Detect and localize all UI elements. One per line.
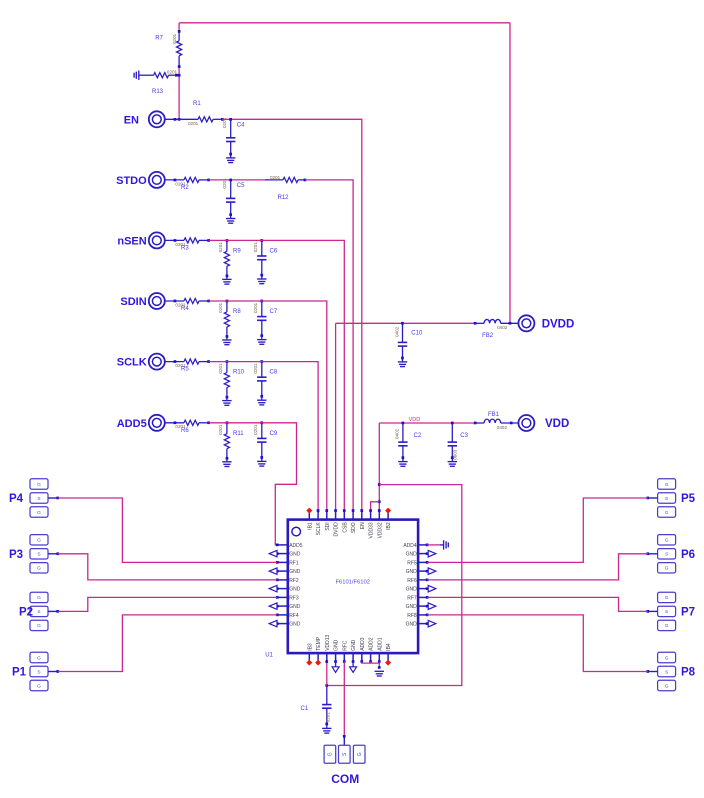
svg-text:0201: 0201 <box>270 175 281 180</box>
svg-text:R4: R4 <box>181 306 189 312</box>
svg-text:DVDD: DVDD <box>334 522 340 537</box>
svg-text:TEMP: TEMP <box>316 636 322 651</box>
svg-text:C8: C8 <box>270 370 278 376</box>
svg-text:VDD32: VDD32 <box>377 522 383 538</box>
svg-text:0201: 0201 <box>253 242 258 253</box>
svg-text:VDD: VDD <box>409 417 421 423</box>
svg-text:ADD5: ADD5 <box>289 543 303 549</box>
svg-text:G: G <box>665 510 669 516</box>
svg-text:SDI: SDI <box>325 522 331 530</box>
svg-text:G: G <box>665 655 669 661</box>
svg-text:DVDD: DVDD <box>542 318 575 330</box>
svg-text:ADD3: ADD3 <box>360 637 366 651</box>
svg-text:GND: GND <box>289 622 301 628</box>
svg-text:G: G <box>665 538 669 544</box>
svg-text:0603: 0603 <box>452 449 457 460</box>
svg-text:ADD4: ADD4 <box>403 543 417 549</box>
svg-text:G: G <box>665 683 669 689</box>
svg-text:0201: 0201 <box>218 363 223 374</box>
svg-text:GND: GND <box>334 639 340 651</box>
svg-text:SCLK: SCLK <box>316 522 322 536</box>
svg-text:GND: GND <box>406 622 418 628</box>
svg-text:R6: R6 <box>181 428 189 434</box>
svg-text:IB4: IB4 <box>386 643 392 651</box>
svg-text:0201: 0201 <box>222 178 227 189</box>
svg-text:0402: 0402 <box>497 425 508 430</box>
svg-text:P6: P6 <box>681 549 695 561</box>
svg-text:G: G <box>37 566 41 572</box>
svg-text:R10: R10 <box>233 370 245 376</box>
svg-text:0402: 0402 <box>395 428 400 439</box>
svg-text:G: G <box>37 623 41 629</box>
svg-text:nSEN: nSEN <box>117 235 146 247</box>
svg-text:COM: COM <box>331 772 359 786</box>
svg-text:RFC: RFC <box>342 640 348 651</box>
svg-text:G: G <box>665 595 669 601</box>
svg-text:P2: P2 <box>19 607 33 619</box>
svg-text:G: G <box>37 482 41 488</box>
svg-text:S: S <box>665 496 668 502</box>
svg-text:C4: C4 <box>237 123 245 129</box>
svg-text:S: S <box>665 669 668 675</box>
svg-text:0201: 0201 <box>325 712 330 723</box>
svg-text:GND: GND <box>406 569 418 575</box>
svg-text:0201: 0201 <box>218 302 223 313</box>
svg-text:S: S <box>37 669 40 675</box>
svg-text:IB1: IB1 <box>307 522 313 530</box>
svg-text:VDD33: VDD33 <box>369 522 375 538</box>
svg-text:GND: GND <box>289 569 301 575</box>
svg-text:G: G <box>328 752 334 756</box>
svg-text:R13: R13 <box>152 89 164 95</box>
svg-text:GND: GND <box>406 587 418 593</box>
svg-text:P4: P4 <box>9 493 24 505</box>
svg-text:R7: R7 <box>155 36 163 42</box>
svg-text:ADD5: ADD5 <box>117 418 147 430</box>
svg-text:C1: C1 <box>301 706 309 712</box>
svg-text:P1: P1 <box>12 667 27 679</box>
svg-text:RF6: RF6 <box>407 578 417 584</box>
svg-text:S: S <box>37 552 40 558</box>
svg-text:GND: GND <box>351 639 357 651</box>
svg-text:RF2: RF2 <box>289 578 299 584</box>
svg-text:U1: U1 <box>265 652 273 658</box>
svg-text:P3: P3 <box>9 549 23 561</box>
svg-text:EN: EN <box>124 114 139 126</box>
svg-text:0201: 0201 <box>222 117 227 128</box>
svg-text:IB3: IB3 <box>307 643 313 651</box>
svg-text:RF3: RF3 <box>289 595 299 601</box>
svg-text:R3: R3 <box>181 245 189 251</box>
svg-text:EN: EN <box>360 522 366 529</box>
svg-text:0402: 0402 <box>394 326 399 337</box>
svg-text:SCLK: SCLK <box>117 357 147 369</box>
svg-text:0402: 0402 <box>497 325 508 330</box>
svg-text:R2: R2 <box>181 185 189 191</box>
svg-text:S: S <box>37 496 40 502</box>
svg-text:0201: 0201 <box>218 424 223 435</box>
svg-text:RF7: RF7 <box>407 595 417 601</box>
svg-text:P8: P8 <box>681 667 696 679</box>
svg-text:GND: GND <box>289 604 301 610</box>
svg-text:R1: R1 <box>193 101 201 107</box>
svg-text:CSB: CSB <box>342 522 348 533</box>
svg-text:ADD1: ADD1 <box>377 637 383 651</box>
svg-text:0201: 0201 <box>253 302 258 313</box>
svg-text:C7: C7 <box>270 309 278 315</box>
svg-text:P7: P7 <box>681 607 695 619</box>
svg-text:G: G <box>37 655 41 661</box>
svg-text:RF1: RF1 <box>289 560 299 566</box>
svg-text:STDO: STDO <box>116 175 147 187</box>
svg-text:S: S <box>665 552 668 558</box>
svg-text:G: G <box>37 683 41 689</box>
svg-text:S: S <box>37 609 40 615</box>
svg-text:ADD2: ADD2 <box>369 637 375 651</box>
svg-text:C10: C10 <box>411 331 423 337</box>
svg-text:C5: C5 <box>237 183 245 189</box>
svg-text:RF5: RF5 <box>407 560 417 566</box>
svg-text:P5: P5 <box>681 493 696 505</box>
svg-text:0201: 0201 <box>172 33 177 44</box>
svg-text:SDO: SDO <box>351 522 357 533</box>
svg-text:C9: C9 <box>270 431 278 437</box>
svg-text:G: G <box>665 482 669 488</box>
svg-text:GND: GND <box>406 552 418 558</box>
svg-text:R5: R5 <box>181 367 189 373</box>
svg-text:R11: R11 <box>233 431 244 437</box>
svg-text:SDIN: SDIN <box>120 296 146 308</box>
svg-text:0201: 0201 <box>218 242 223 253</box>
svg-text:FB2: FB2 <box>482 333 494 339</box>
svg-text:VDD: VDD <box>545 418 569 430</box>
svg-text:GND: GND <box>289 552 301 558</box>
svg-text:G: G <box>37 510 41 516</box>
svg-text:GND: GND <box>289 587 301 593</box>
svg-text:R12: R12 <box>278 195 290 201</box>
svg-text:0201: 0201 <box>253 424 258 435</box>
svg-text:0201: 0201 <box>253 363 258 374</box>
svg-text:RF4: RF4 <box>289 613 299 619</box>
svg-text:G: G <box>37 595 41 601</box>
svg-text:GND: GND <box>406 604 418 610</box>
svg-text:F6101/F6102: F6101/F6102 <box>335 579 369 585</box>
svg-text:R8: R8 <box>233 309 241 315</box>
svg-text:0201: 0201 <box>188 121 199 126</box>
svg-text:C3: C3 <box>460 433 468 439</box>
svg-text:G: G <box>665 566 669 572</box>
svg-text:C2: C2 <box>414 433 422 439</box>
svg-text:G: G <box>665 623 669 629</box>
svg-text:C6: C6 <box>270 248 278 254</box>
svg-text:IB2: IB2 <box>386 522 392 530</box>
svg-text:RF8: RF8 <box>407 613 417 619</box>
svg-text:R9: R9 <box>233 248 241 254</box>
svg-text:0201: 0201 <box>167 69 178 74</box>
svg-text:VDD13: VDD13 <box>325 634 331 650</box>
svg-text:FB1: FB1 <box>488 412 500 418</box>
svg-text:G: G <box>357 752 363 756</box>
svg-text:G: G <box>37 538 41 544</box>
svg-text:S: S <box>665 609 668 615</box>
